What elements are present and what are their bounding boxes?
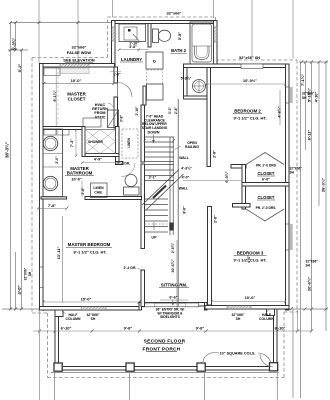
svg-text:CLOSET: CLOSET xyxy=(68,97,86,102)
svg-text:8'-1 1/2" CLG. HT.: 8'-1 1/2" CLG. HT. xyxy=(73,250,106,255)
svg-text:8'-8": 8'-8" xyxy=(183,206,187,214)
svg-text:FALSE WDW: FALSE WDW xyxy=(67,50,92,55)
svg-text:SH: SH xyxy=(236,317,241,321)
svg-text:7'-1¾": 7'-1¾" xyxy=(300,74,305,86)
svg-text:PR. 2'-0 DRS: PR. 2'-0 DRS xyxy=(256,164,277,168)
svg-text:LAUNDRY: LAUNDRY xyxy=(121,57,142,62)
svg-text:4'-10": 4'-10" xyxy=(314,91,319,102)
svg-text:20'-6¾": 20'-6¾" xyxy=(307,277,312,291)
svg-text:CLOSET: CLOSET xyxy=(258,171,275,176)
cabinets top of master bath xyxy=(44,128,56,136)
svg-text:DOWN: DOWN xyxy=(147,131,159,135)
svg-text:2'-8": 2'-8" xyxy=(213,150,217,158)
svg-text:7'-3": 7'-3" xyxy=(70,139,74,147)
svg-text:5'-3¾": 5'-3¾" xyxy=(11,38,16,51)
svg-text:SH: SH xyxy=(306,264,311,268)
laundry/bath divider wall xyxy=(148,24,151,48)
svg-text:36'-3¼": 36'-3¼" xyxy=(3,142,9,158)
laundry west wall below bump corner xyxy=(114,67,118,83)
bath2 tub xyxy=(190,22,214,64)
closet dashed dim xyxy=(55,68,57,127)
svg-text:3'-8": 3'-8" xyxy=(129,45,137,49)
svg-text:BEDROOM 2: BEDROOM 2 xyxy=(234,109,261,114)
svg-text:4'-3¾": 4'-3¾" xyxy=(181,167,192,171)
wc toilet xyxy=(124,187,140,195)
laundry door arc xyxy=(118,83,133,98)
svg-text:SEE ELEVATION: SEE ELEVATION xyxy=(63,58,95,63)
svg-text:8'-11": 8'-11" xyxy=(307,130,312,141)
svg-text:2'-8": 2'-8" xyxy=(81,187,85,195)
svg-text:10'-9½": 10'-9½" xyxy=(243,78,257,83)
wc/stair west wall xyxy=(141,105,145,162)
svg-text:1'-0": 1'-0" xyxy=(113,73,121,77)
svg-text:32"x66" 6H: 32"x66" 6H xyxy=(239,55,260,60)
svg-text:2'-8": 2'-8" xyxy=(214,215,218,223)
svg-text:6'-6": 6'-6" xyxy=(169,296,177,300)
shower right wall xyxy=(116,127,120,157)
svg-text:PR. 2'-0 DRS: PR. 2'-0 DRS xyxy=(256,206,277,210)
svg-text:WALL: WALL xyxy=(179,156,189,160)
svg-text:6'-10": 6'-10" xyxy=(61,326,72,331)
svg-text:15'-0": 15'-0" xyxy=(81,297,92,302)
window seat under false window xyxy=(60,68,89,74)
steps below porch xyxy=(54,373,56,400)
svg-text:10'-0": 10'-0" xyxy=(71,78,82,83)
bottom wall left xyxy=(40,307,142,311)
svg-text:4'-8¾": 4'-8¾" xyxy=(278,106,282,118)
svg-text:SH: SH xyxy=(302,96,307,100)
svg-text:10'-6¾": 10'-6¾" xyxy=(171,259,175,273)
svg-text:SH: SH xyxy=(28,271,32,276)
svg-text:SH: SH xyxy=(290,171,295,175)
svg-text:9'-1¾": 9'-1¾" xyxy=(53,90,57,102)
svg-text:10'-6": 10'-6" xyxy=(245,295,256,300)
laundry east wall lower xyxy=(143,86,146,105)
hall walls near stairs xyxy=(177,99,179,306)
svg-text:COLUMN: COLUMN xyxy=(259,317,274,321)
svg-text:6'-0": 6'-0" xyxy=(262,178,270,182)
svg-text:3'-8": 3'-8" xyxy=(120,115,124,123)
porch right wall xyxy=(274,309,278,364)
svg-text:32"X66": 32"X66" xyxy=(24,267,28,280)
svg-text:7'-8": 7'-8" xyxy=(48,204,56,208)
svg-text:LINEN: LINEN xyxy=(127,138,131,148)
svg-text:UP: UP xyxy=(151,236,157,240)
svg-text:2'-0": 2'-0" xyxy=(55,156,59,164)
svg-text:5'-3¾": 5'-3¾" xyxy=(181,77,192,81)
svg-text:ATTIC: ATTIC xyxy=(95,115,106,119)
svg-text:COLUMN: COLUMN xyxy=(66,317,81,321)
svg-text:2'-10": 2'-10" xyxy=(135,106,139,115)
bath2 toilet xyxy=(153,29,159,43)
main top wall left part xyxy=(40,64,115,68)
svg-text:MASTER BEDROOM: MASTER BEDROOM xyxy=(68,242,111,247)
svg-text:9'-8": 9'-8" xyxy=(196,326,205,331)
svg-text:32"x66": 32"x66" xyxy=(72,45,87,50)
half columns xyxy=(55,310,63,317)
svg-text:4'-0": 4'-0" xyxy=(17,285,22,294)
right wall xyxy=(286,64,290,310)
svg-text:5'-8": 5'-8" xyxy=(178,32,182,40)
closet/bath divider xyxy=(43,127,82,130)
svg-text:5'-2": 5'-2" xyxy=(17,64,22,73)
svg-text:RAILING: RAILING xyxy=(185,145,199,149)
porch left wall xyxy=(55,310,59,363)
svg-text:10'-0": 10'-0" xyxy=(71,178,82,182)
svg-text:9'-1 1/2" CLG. HT.: 9'-1 1/2" CLG. HT. xyxy=(233,116,266,121)
bath2 annex west wall xyxy=(184,68,188,100)
svg-text:10" SQUARE COLS.: 10" SQUARE COLS. xyxy=(220,352,256,356)
svg-text:STAIR LANDING: STAIR LANDING xyxy=(142,126,168,130)
svg-text:CAB.: CAB. xyxy=(94,190,102,194)
svg-text:13'-11": 13'-11" xyxy=(56,246,61,259)
bottom wall entry (projected) xyxy=(139,303,207,307)
svg-text:2'-0 DR.: 2'-0 DR. xyxy=(118,162,131,166)
round fixture in bath2 annex xyxy=(193,80,206,93)
svg-text:BATHROOM: BATHROOM xyxy=(67,171,93,176)
svg-text:3'-3": 3'-3" xyxy=(168,107,172,115)
porch front edge xyxy=(57,367,273,371)
svg-text:D: D xyxy=(153,59,156,64)
shower box xyxy=(85,130,116,154)
svg-text:6'-10": 6'-10" xyxy=(275,326,286,331)
bedroom2 west wall xyxy=(207,68,211,167)
svg-text:2'-8": 2'-8" xyxy=(174,107,178,115)
shower bottom wall xyxy=(82,154,119,157)
bath south wall xyxy=(85,197,142,200)
left wall xyxy=(40,64,44,311)
svg-text:4'-6": 4'-6" xyxy=(247,255,251,263)
bath2 annex south wall xyxy=(184,96,211,99)
svg-text:2'-4 DR.: 2'-4 DR. xyxy=(124,266,137,270)
porch labels xyxy=(62,312,66,314)
main top wall right part xyxy=(184,64,290,68)
svg-text:9'-8": 9'-8" xyxy=(124,326,133,331)
break diagonal xyxy=(142,170,179,206)
vanity with two sinks xyxy=(43,129,63,197)
svg-text:SH: SH xyxy=(91,317,96,321)
svg-text:SHOWER: SHOWER xyxy=(88,140,103,144)
svg-text:26'-3¼": 26'-3¼" xyxy=(321,178,326,192)
svg-text:SITTING RM.: SITTING RM. xyxy=(161,283,188,288)
bottom dim row xyxy=(33,330,312,332)
closet dim 10'-0 xyxy=(44,82,114,84)
svg-text:2'-6¾": 2'-6¾" xyxy=(171,243,175,254)
dim ticks xyxy=(9,21,328,333)
left wall window caps xyxy=(40,87,290,288)
lower flight xyxy=(145,199,169,232)
entry sidelights xyxy=(142,303,155,307)
bath2 sink vanity xyxy=(119,24,146,42)
bump (bath2/laundry) top wall xyxy=(112,21,218,24)
svg-text:4'-0": 4'-0" xyxy=(182,176,190,180)
svg-text:CLOSET: CLOSET xyxy=(258,195,275,200)
shower left wall xyxy=(82,127,85,157)
svg-text:32"X66": 32"X66" xyxy=(302,92,315,96)
hall dims xyxy=(183,180,242,182)
bump left wall xyxy=(112,21,116,68)
svg-text:3'-1": 3'-1" xyxy=(149,176,157,180)
svg-text:BEDROOM 3: BEDROOM 3 xyxy=(237,251,264,256)
svg-text:4'-9": 4'-9" xyxy=(94,158,102,162)
bottom wall right xyxy=(205,306,289,310)
svg-text:WALL: WALL xyxy=(179,187,189,191)
svg-text:BATH 2: BATH 2 xyxy=(171,48,186,53)
porch columns xyxy=(54,363,62,371)
svg-text:32"x66": 32"x66" xyxy=(167,11,182,16)
dryer / washer xyxy=(146,52,163,69)
svg-text:SIDELIGHTS: SIDELIGHTS xyxy=(160,315,181,319)
bump right wall xyxy=(214,21,218,68)
svg-text:6'-9¾": 6'-9¾" xyxy=(225,171,229,183)
closet 2 bifold xyxy=(246,153,284,165)
